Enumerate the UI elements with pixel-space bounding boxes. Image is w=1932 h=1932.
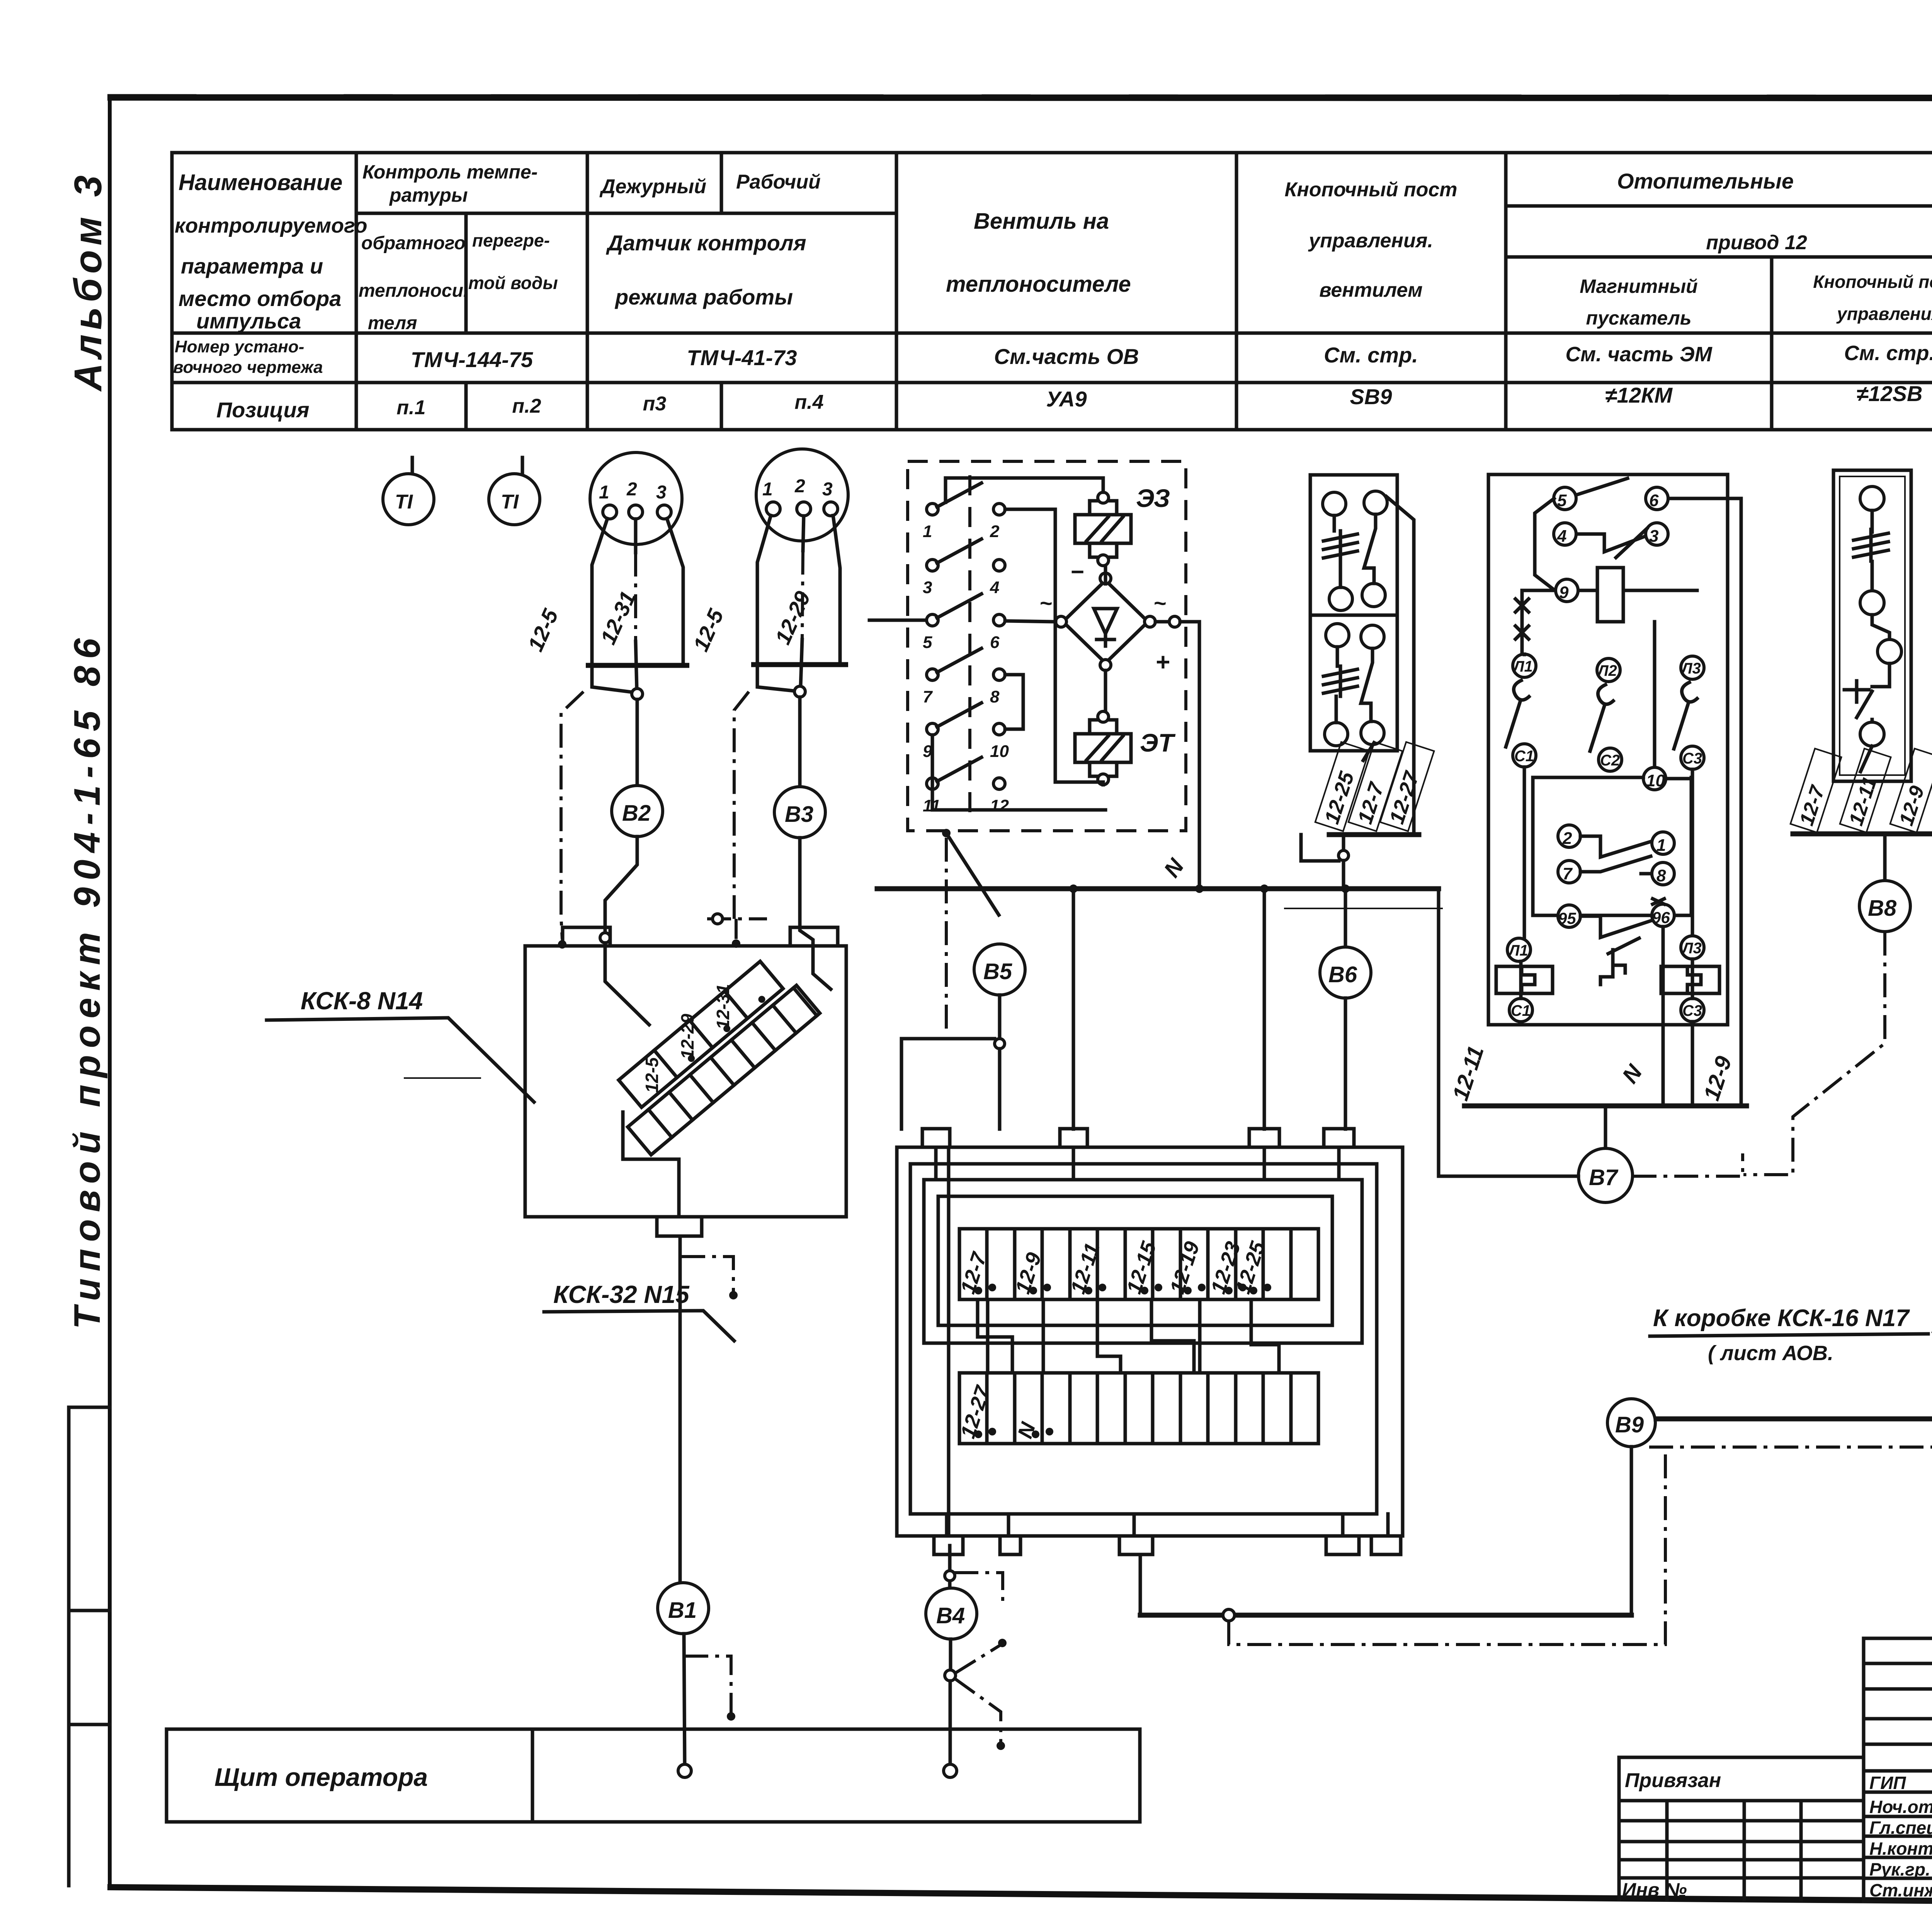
svg-text:КСК-8 N14: КСК-8 N14 [301, 987, 423, 1015]
svg-text:п3: п3 [643, 393, 667, 415]
КСК-32 lower terminal strip [959, 1373, 1318, 1444]
КСК-32 upper terminal strip [959, 1229, 1318, 1299]
svg-text:параметра и: параметра и [181, 254, 323, 278]
valve unit internal wiring [869, 478, 1199, 889]
svg-text:+: + [1155, 648, 1170, 676]
svg-text:Альбом 3: Альбом 3 [66, 171, 110, 392]
svg-text:См.часть ОВ: См.часть ОВ [994, 344, 1139, 369]
svg-text:−: − [1070, 559, 1084, 585]
horizontal bus wire [877, 884, 1439, 1176]
svg-text:12-29: 12-29 [677, 1014, 697, 1059]
svg-text:Наименование: Наименование [179, 170, 342, 195]
svg-text:TI: TI [501, 491, 519, 513]
svg-text:Вентиль на: Вентиль на [974, 209, 1109, 234]
svg-text:Кнопочный пост: Кнопочный пост [1284, 179, 1457, 201]
svg-text:Номер устано-: Номер устано- [175, 337, 304, 356]
sensor connector p3 (pins 1 2 3) [590, 452, 682, 544]
sensor connector p.4 (pins 1 2 3) [756, 449, 848, 541]
cable mark B5 [901, 944, 1025, 1129]
svg-text:УА9: УА9 [1046, 387, 1087, 411]
svg-text:Отопительные: Отопительные [1617, 169, 1794, 193]
svg-text:перегре-: перегре- [472, 230, 550, 250]
junction under valve box [942, 829, 999, 1034]
svg-text:В8: В8 [1868, 896, 1897, 921]
operator panel Щит оператора [167, 1729, 1140, 1822]
svg-text:≠12SВ: ≠12SВ [1857, 381, 1923, 406]
svg-text:Щит оператора: Щит оператора [214, 1763, 428, 1791]
table row 2: установочные чертежи [173, 337, 1932, 377]
svg-text:Рук.гр.: Рук.гр. [1869, 1859, 1930, 1879]
svg-text:TI: TI [395, 491, 413, 513]
svg-text:Инв №: Инв № [1622, 1879, 1687, 1901]
svg-text:7: 7 [923, 687, 933, 706]
svg-text:Ст.инж: Ст.инж [1869, 1880, 1932, 1900]
svg-text:К коробке КСК-16 N17: К коробке КСК-16 N17 [1653, 1305, 1910, 1332]
svg-text:12-5: 12-5 [642, 1057, 662, 1093]
svg-text:~: ~ [1153, 591, 1166, 615]
push-button post SB9 [1310, 475, 1414, 835]
svg-text:≠12КМ: ≠12КМ [1605, 383, 1673, 407]
signature rows [1869, 1769, 1932, 1901]
table row 3: позиция [216, 378, 1932, 422]
svg-text:контролируемого: контролируемого [175, 214, 367, 237]
junction box КСК-32 N15 [897, 1129, 1403, 1554]
header table grid [172, 153, 1932, 430]
svg-text:той воды: той воды [468, 273, 558, 293]
cable mark B3 [774, 787, 825, 947]
svg-text:~: ~ [1039, 591, 1052, 615]
svg-text:пускатель: пускатель [1586, 307, 1692, 329]
svg-text:Контроль темпе-: Контроль темпе- [362, 161, 537, 183]
svg-text:Н.контр.: Н.контр. [1869, 1838, 1932, 1859]
junction box КСК-8 N14 [525, 927, 846, 1236]
instrument TI p.1 [383, 457, 434, 525]
привязан table [1619, 1757, 1864, 1901]
label КСК-32 N15 [544, 1281, 734, 1341]
wire B4 from КСК-32 to operator panel [945, 1546, 1003, 1604]
svg-text:Кнопочный пост: Кнопочный пост [1813, 272, 1932, 292]
svg-text:управления: управления [1836, 304, 1932, 324]
svg-text:теплоноси.: теплоноси. [359, 281, 468, 301]
svg-text:управления.: управления. [1308, 230, 1433, 252]
coil ЭТ [1075, 711, 1175, 785]
cable mark B2 [600, 786, 663, 947]
svg-text:Привязан: Привязан [1625, 1769, 1721, 1792]
svg-text:В9: В9 [1615, 1412, 1644, 1437]
svg-text:ратуры: ратуры [389, 184, 468, 206]
svg-text:В2: В2 [622, 801, 651, 826]
cable mark B7 [1439, 1107, 1743, 1202]
svg-text:2: 2 [990, 522, 1000, 541]
svg-text:Ноч.отд: Ноч.отд [1869, 1797, 1932, 1817]
svg-text:Позиция: Позиция [216, 398, 310, 422]
labels 12-25 12-7 12-27 [1315, 742, 1369, 831]
svg-text:12-31: 12-31 [713, 984, 733, 1029]
svg-text:1: 1 [923, 522, 932, 541]
svg-text:В3: В3 [785, 802, 813, 827]
svg-text:вентилем: вентилем [1319, 279, 1423, 301]
svg-text:Гл.спец: Гл.спец [1869, 1818, 1932, 1838]
svg-text:3: 3 [923, 578, 932, 597]
svg-text:3: 3 [656, 482, 667, 503]
dash-dot run below B9 [1649, 1424, 1932, 1447]
cable funnel wires 12-5 / 12-31 [558, 519, 689, 949]
annotation К коробке КСК-16 N17 [1650, 1195, 1932, 1365]
B9 lower connections [1140, 1447, 1665, 1645]
svg-text:вочного чертежа: вочного чертежа [173, 358, 323, 377]
svg-text:2: 2 [794, 476, 805, 497]
svg-text:Датчик контроля: Датчик контроля [606, 231, 806, 255]
svg-text:Типовой проект 904-1-65 86: Типовой проект 904-1-65 86 [66, 631, 108, 1329]
svg-text:3: 3 [822, 479, 833, 500]
svg-text:ТМЧ-41-73: ТМЧ-41-73 [687, 345, 797, 370]
table header texts [175, 161, 1932, 333]
instrument TI p.2 [489, 457, 540, 525]
cable mark B8 [1743, 834, 1910, 1175]
svg-text:ЭТ: ЭТ [1140, 728, 1175, 757]
svg-text:п.4: п.4 [794, 391, 823, 413]
svg-text:В5: В5 [983, 959, 1012, 984]
svg-text:1: 1 [599, 482, 609, 503]
svg-text:В1: В1 [668, 1598, 697, 1623]
svg-text:привод 12: привод 12 [1706, 231, 1807, 254]
cable funnel wires 12-5 / 12-29 [707, 515, 848, 948]
svg-text:1: 1 [762, 479, 773, 500]
svg-text:См. стр.: См. стр. [1844, 342, 1932, 365]
wire B1 from КСК-8 to operator panel [680, 1236, 738, 1583]
svg-text:6: 6 [990, 633, 1000, 652]
cable mark B4 [926, 1588, 1007, 1764]
svg-text:п.1: п.1 [396, 396, 425, 419]
valve unit УА9 dashed enclosure [908, 461, 1186, 831]
cable mark B9 [1607, 1399, 1655, 1447]
КСК-32 internal wires [936, 1147, 1388, 1536]
svg-text:теплоносителе: теплоносителе [946, 272, 1131, 297]
svg-text:Магнитный: Магнитный [1580, 276, 1697, 297]
svg-text:КСК-32 N15: КСК-32 N15 [553, 1281, 690, 1308]
#12SB wire labels [1791, 748, 1842, 832]
left margin stacked cells [69, 1407, 110, 1886]
svg-text:ЭЗ: ЭЗ [1136, 484, 1170, 512]
svg-text:В7: В7 [1589, 1165, 1619, 1190]
magnetic starter #12КМ [1464, 474, 1747, 1106]
rectifier bridge [1039, 559, 1170, 676]
svg-text:обратного: обратного [361, 233, 466, 253]
svg-text:Дежурный: Дежурный [599, 175, 706, 198]
svg-text:12: 12 [990, 796, 1009, 815]
cable mark B6 [1320, 889, 1371, 1129]
svg-text:место отбора: место отбора [179, 286, 341, 311]
svg-text:В6: В6 [1328, 962, 1357, 987]
svg-text:2: 2 [626, 479, 637, 500]
cable mark B1 [658, 1583, 735, 1764]
svg-text:ГИП: ГИП [1869, 1773, 1906, 1793]
svg-text:8: 8 [990, 687, 1000, 706]
svg-text:В4: В4 [936, 1603, 965, 1628]
wire from B9 to КСК-16 [1656, 1359, 1932, 1424]
title block [1864, 1638, 1932, 1901]
svg-text:См. часть ЭМ: См. часть ЭМ [1565, 343, 1712, 366]
svg-text:5: 5 [923, 633, 932, 652]
svg-text:ТМЧ-144-75: ТМЧ-144-75 [411, 347, 533, 372]
svg-text:импульса: импульса [196, 309, 301, 333]
svg-text:Рабочий: Рабочий [736, 171, 821, 193]
svg-text:4: 4 [990, 578, 999, 597]
push-button post #12SB [1833, 470, 1911, 781]
contact pairs 1-12 [923, 483, 1009, 815]
svg-text:теля: теля [368, 313, 417, 333]
coil ЭЗ [1075, 484, 1170, 566]
svg-text:SВ9: SВ9 [1350, 384, 1392, 409]
label КСК-8 N14 [267, 987, 534, 1102]
fold line [1284, 908, 1443, 909]
svg-text:10: 10 [990, 742, 1009, 761]
svg-text:( лист АОВ.: ( лист АОВ. [1708, 1342, 1833, 1365]
svg-text:п.2: п.2 [512, 395, 541, 417]
svg-text:См. стр.: См. стр. [1324, 343, 1418, 367]
svg-text:режима работы: режима работы [614, 285, 793, 309]
